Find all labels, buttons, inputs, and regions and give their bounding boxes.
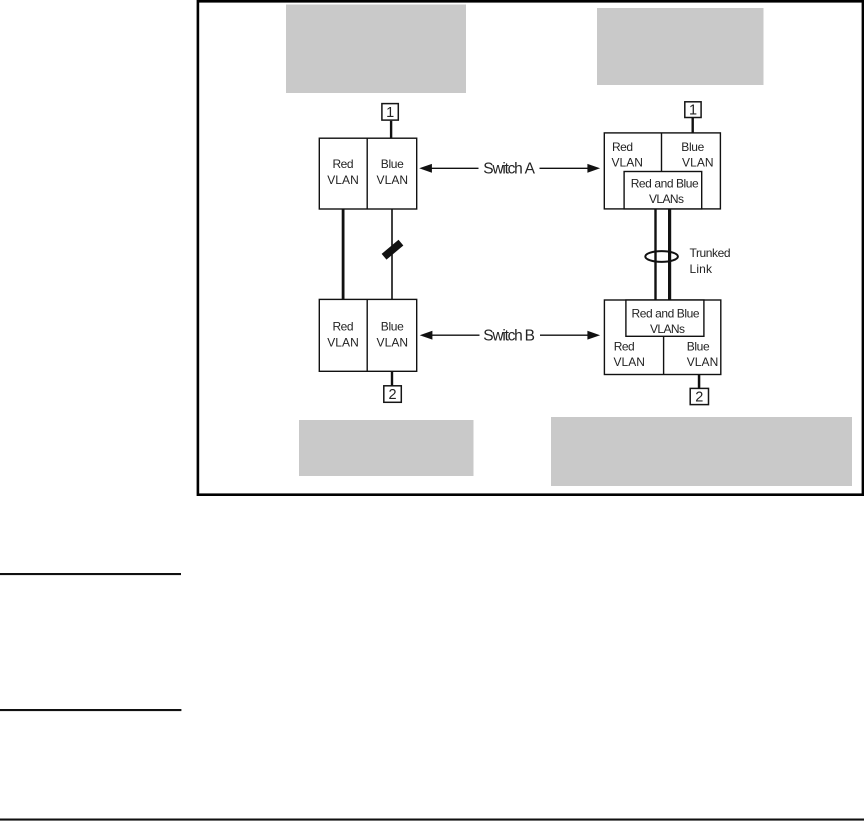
svg-text:Blue: Blue [381,157,404,171]
svg-text:VLAN: VLAN [611,156,643,170]
svg-text:VLAN: VLAN [327,335,359,349]
svg-text:1: 1 [386,105,394,121]
svg-text:Red and Blue: Red and Blue [632,307,700,321]
svg-text:Blue: Blue [681,140,704,154]
svg-text:2: 2 [695,390,703,406]
svg-text:Link: Link [690,262,714,276]
svg-text:VLANs: VLANs [649,192,684,206]
svg-text:Switch: Switch [483,327,523,344]
svg-text:A: A [525,161,536,178]
svg-text:1: 1 [689,103,697,119]
svg-text:VLAN: VLAN [682,156,714,170]
svg-text:B: B [525,327,535,344]
svg-text:Blue: Blue [687,339,710,353]
svg-text:Red: Red [333,157,354,171]
svg-text:Switch: Switch [483,161,523,178]
svg-text:Trunked: Trunked [690,246,731,260]
svg-text:Red and Blue: Red and Blue [631,176,699,190]
svg-text:VLAN: VLAN [327,173,359,187]
svg-text:VLAN: VLAN [377,335,409,349]
svg-text:VLAN: VLAN [613,355,645,369]
svg-text:Red: Red [614,339,635,353]
svg-text:Red: Red [333,320,354,334]
svg-text:VLAN: VLAN [377,173,409,187]
svg-text:Blue: Blue [381,320,404,334]
svg-text:VLANs: VLANs [650,322,685,336]
svg-text:Red: Red [612,140,633,154]
svg-text:VLAN: VLAN [687,355,719,369]
svg-text:2: 2 [388,387,396,403]
